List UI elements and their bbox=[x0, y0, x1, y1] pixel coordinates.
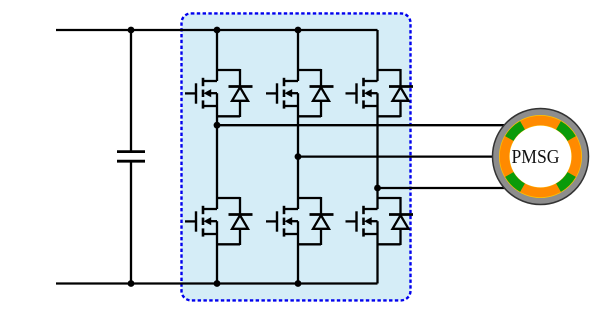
wire diode-to-source D6 bbox=[377, 243, 401, 245]
wire: phase A to PMSG bbox=[217, 124, 505, 126]
transistor Q6 bbox=[346, 220, 358, 222]
wire: leg 3 drain from +rail bbox=[376, 30, 378, 81]
diode D1 bbox=[239, 69, 241, 87]
node: -rail junction leg 1 bbox=[214, 280, 221, 287]
wire: leg 3 upper source to phase node bbox=[376, 93, 378, 188]
node: capacitor / -rail junction bbox=[128, 280, 135, 287]
transistor Q3 bbox=[266, 92, 278, 94]
wire drain-to-diode D3 bbox=[297, 69, 321, 71]
wire: leg 2 phase node to lower drain bbox=[297, 157, 299, 209]
node: +rail junction leg 2 bbox=[295, 27, 302, 34]
wire: negative DC rail bbox=[56, 282, 378, 284]
wire diode-to-source D4 bbox=[297, 243, 321, 245]
wire drain-to-diode D2 bbox=[216, 197, 240, 199]
wire: leg 1 lower source to -rail bbox=[216, 221, 218, 283]
diode D5 bbox=[399, 69, 401, 87]
transistor Q2 bbox=[185, 220, 197, 222]
wire diode-to-source D5 bbox=[377, 115, 401, 117]
wire: leg 1 phase node to lower drain bbox=[216, 125, 218, 209]
wire: leg 2 lower source to -rail bbox=[297, 221, 299, 283]
wire drain-to-diode D5 bbox=[377, 69, 401, 71]
diode D6 bbox=[399, 197, 401, 215]
wire drain-to-diode D6 bbox=[377, 197, 401, 199]
wire: phase C to PMSG bbox=[378, 187, 506, 189]
transistor Q5 bbox=[346, 92, 358, 94]
converter box (three-phase bridge, dashed blue) bbox=[182, 13, 411, 300]
wire: positive DC rail bbox=[56, 29, 378, 31]
node: phase B output junction bbox=[295, 153, 302, 160]
node: +rail junction leg 1 bbox=[214, 27, 221, 34]
wire: leg 1 upper source to phase node bbox=[216, 93, 218, 125]
wire drain-to-diode D1 bbox=[216, 69, 240, 71]
wire: leg 2 upper source to phase node bbox=[297, 93, 299, 156]
wire diode-to-source D1 bbox=[216, 115, 240, 117]
wire diode-to-source D3 bbox=[297, 115, 321, 117]
wire: leg 3 phase node to lower drain bbox=[376, 188, 378, 209]
machine PMSG (permanent magnet synchronous generator) bbox=[493, 109, 589, 205]
wire: leg 2 drain from +rail bbox=[297, 30, 299, 81]
transistor Q4 bbox=[266, 220, 278, 222]
node: -rail junction leg 2 bbox=[295, 280, 302, 287]
wire: capacitor top lead bbox=[130, 30, 132, 152]
wire: capacitor bottom lead bbox=[130, 161, 132, 283]
diode D2 bbox=[239, 197, 241, 215]
diode D3 bbox=[320, 69, 322, 87]
svg-text:PMSG: PMSG bbox=[511, 146, 559, 169]
transistor Q1 bbox=[185, 92, 197, 94]
wire drain-to-diode D4 bbox=[297, 197, 321, 199]
wire: leg 1 drain from +rail bbox=[216, 30, 218, 81]
wire: phase B to PMSG bbox=[298, 155, 505, 157]
node: phase C output junction bbox=[374, 185, 381, 192]
node: capacitor / +rail junction bbox=[128, 27, 135, 34]
wire: leg 3 lower source to -rail bbox=[376, 221, 378, 283]
wire diode-to-source D2 bbox=[216, 243, 240, 245]
capacitor C (DC-link) bbox=[117, 150, 145, 153]
node: phase A output junction bbox=[214, 122, 221, 129]
diode D4 bbox=[320, 197, 322, 215]
